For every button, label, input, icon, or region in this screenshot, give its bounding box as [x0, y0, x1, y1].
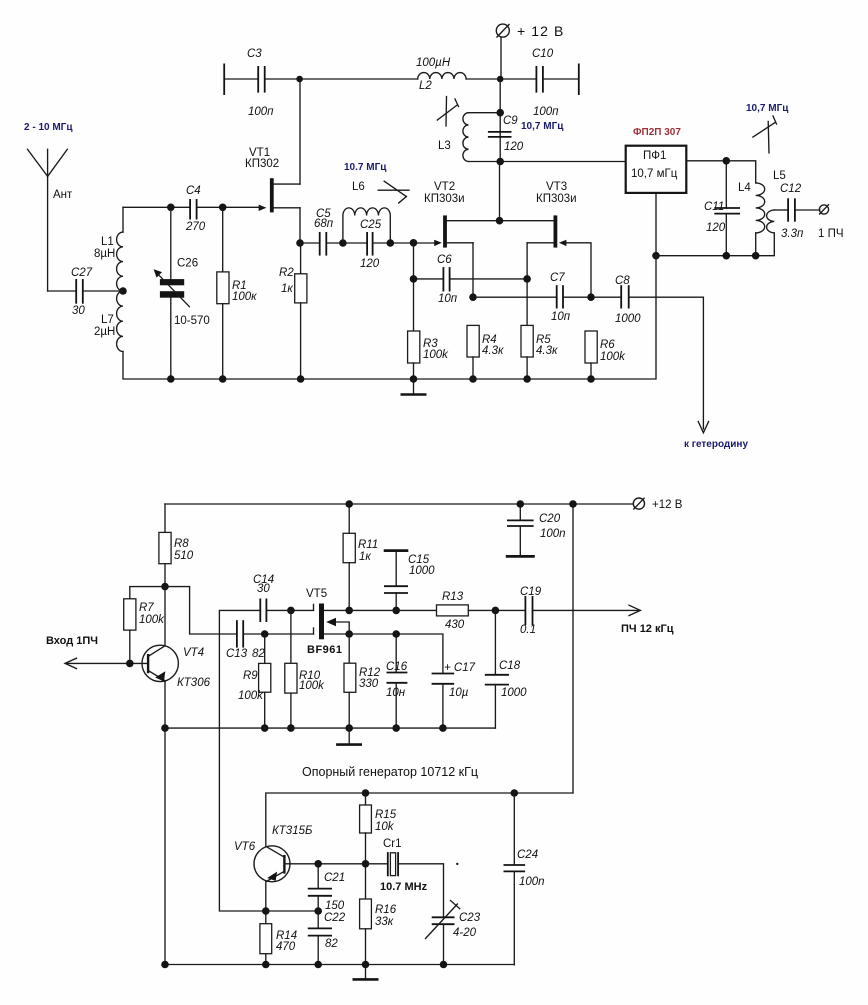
svg-text:+ 12 В: + 12 В: [517, 23, 564, 39]
svg-text:C20: C20: [539, 513, 561, 525]
inductor L3: [438, 113, 469, 162]
svg-text:150: 150: [325, 900, 345, 912]
svg-text:120: 120: [360, 258, 380, 270]
svg-text:C13: C13: [226, 648, 248, 660]
inductor L2: [416, 57, 466, 92]
capacitor C25: [360, 219, 382, 270]
svg-text:10,7 МГц: 10,7 МГц: [521, 121, 564, 132]
svg-text:C3: C3: [247, 48, 262, 60]
node VT1 drain junction: [296, 76, 303, 83]
capacitor C18: [485, 610, 527, 728]
resistor R8: [159, 504, 194, 587]
svg-text:R9: R9: [243, 670, 258, 682]
resistor R3: [408, 331, 450, 379]
node R1 top: [219, 204, 227, 212]
wire oscillator top rail: [266, 793, 573, 847]
node VT6 emitter row: [262, 907, 270, 915]
svg-text:10.7 МГц: 10.7 МГц: [344, 162, 387, 173]
resistor R2: [279, 243, 307, 379]
trimmer arrow for L6: [378, 181, 409, 203]
capacitor C16: [386, 634, 408, 728]
svg-text:C18: C18: [499, 660, 521, 672]
svg-text:3.3п: 3.3п: [781, 228, 804, 240]
node C23 bottom: [440, 961, 448, 969]
wire L3 top lead: [469, 112, 501, 114]
svg-text:C11: C11: [704, 201, 724, 213]
capacitor C3: [224, 48, 274, 118]
svg-text:270: 270: [185, 221, 206, 233]
node R15 top: [362, 789, 370, 797]
svg-text:10.7 MHz: 10.7 MHz: [380, 881, 428, 893]
svg-text:C9: C9: [503, 115, 518, 127]
wire tank top line: [123, 206, 190, 208]
node R7/R8/VT4 collector: [161, 583, 169, 591]
wire C19 to output arrow: [533, 609, 639, 611]
ground (oscillator): [353, 965, 379, 980]
svg-text:430: 430: [445, 619, 465, 631]
wire C27 to tap: [83, 290, 123, 292]
filter PF1: [626, 146, 687, 193]
svg-text:C6: C6: [437, 254, 452, 266]
node C17 bottom rail: [439, 724, 447, 732]
svg-text:68п: 68п: [314, 218, 334, 230]
wire C10 to right bar: [543, 78, 579, 80]
capacitor C4: [185, 185, 206, 233]
wire output network bottom rail: [656, 233, 774, 256]
svg-text:VT6: VT6: [234, 841, 256, 853]
wire top rail middle segment: [265, 78, 418, 80]
node C24 top: [511, 789, 519, 797]
svg-text:ПФ1: ПФ1: [643, 150, 666, 162]
wire top rail right segment: [466, 78, 536, 80]
resistor R16: [360, 864, 397, 965]
node C11 top: [723, 157, 731, 165]
wire VT3 gate from right: [566, 243, 591, 297]
resistor R15: [360, 793, 397, 864]
node L4 bottom: [752, 252, 760, 260]
svg-text:КТ306: КТ306: [177, 677, 211, 689]
svg-text:4.3к: 4.3к: [536, 345, 558, 357]
svg-text:1000: 1000: [501, 687, 527, 699]
resistor R6: [585, 331, 626, 379]
svg-text:100п: 100п: [248, 106, 274, 118]
arrow PCh 12 kHz: [629, 605, 640, 615]
arrow to heterodyne: [698, 422, 708, 433]
svg-text:10k: 10k: [375, 821, 395, 833]
node rail left / VT4 emitter: [161, 724, 169, 732]
capacitor C21: [308, 864, 345, 912]
svg-text:+ C17: + C17: [444, 662, 476, 674]
wire emitter row to C21/C22: [266, 910, 318, 912]
wire +12V terminal to top rail: [500, 38, 502, 80]
svg-text:C22: C22: [324, 912, 346, 924]
wire bottom-section +12V rail: [165, 503, 633, 505]
svg-text:100k: 100k: [299, 680, 325, 692]
wire C6 row: [413, 243, 415, 331]
wire VT3 source node down to R5: [526, 279, 528, 326]
svg-text:4.3к: 4.3к: [482, 345, 504, 357]
svg-text:100k: 100k: [600, 351, 626, 363]
resistor R13: [437, 591, 469, 631]
wire antenna to C27: [48, 290, 76, 292]
wire middle bottom rail: [165, 727, 495, 729]
transistor VT4 (KT306): [142, 645, 211, 689]
node R1 bottom rail: [219, 375, 227, 383]
node R9 bottom rail: [261, 724, 269, 732]
capacitor C19: [520, 586, 542, 636]
wire C12 to 1PCh terminal: [795, 209, 820, 211]
wire drain node to PF1 input: [500, 161, 626, 163]
svg-text:30: 30: [72, 305, 85, 317]
node C6 right / VT3 source: [523, 275, 531, 283]
svg-text:КТ315Б: КТ315Б: [272, 825, 313, 837]
wire input with arrow: [65, 658, 148, 668]
wire L7 bottom to ground rail: [123, 352, 414, 380]
svg-text:R2: R2: [279, 267, 294, 279]
svg-text:10п: 10п: [551, 311, 571, 323]
svg-text:Вход 1ПЧ: Вход 1ПЧ: [46, 635, 98, 647]
svg-text:VT4: VT4: [183, 647, 204, 659]
svg-text:82: 82: [252, 648, 265, 660]
wire oscillator bottom rail: [165, 964, 514, 966]
inductor L6: [343, 181, 390, 243]
svg-text:Ант: Ант: [53, 189, 73, 201]
wire C14 branch / oscillator feed: [266, 609, 313, 611]
svg-text:R6: R6: [600, 339, 615, 351]
wire drain junction up to L3/C9 bottom: [499, 162, 501, 221]
node VT5 source / R12 top: [345, 630, 353, 638]
wire VT4 emitter down: [164, 681, 166, 728]
ground (RF section): [401, 379, 427, 395]
antenna: [28, 149, 74, 291]
wire left vertical to oscillator rail: [164, 728, 166, 964]
svg-text:100k: 100k: [238, 690, 264, 702]
wire C4 to R1 node: [197, 206, 262, 208]
wire VT6 emitter down: [265, 881, 267, 923]
svg-text:100к: 100к: [232, 291, 257, 303]
ground (IF section): [336, 728, 362, 745]
svg-text:L6: L6: [352, 181, 365, 193]
svg-text:C4: C4: [186, 185, 201, 197]
wire C13 to VT5 G1: [243, 633, 313, 635]
svg-text:C23: C23: [459, 912, 481, 924]
svg-text:к гетеродину: к гетеродину: [684, 439, 748, 450]
node L3/C9 top junction: [496, 109, 504, 117]
svg-text:0.1: 0.1: [520, 624, 536, 636]
node L3/C9 bottom junction: [496, 158, 504, 166]
wire bottom rail to PF1 riser: [414, 193, 657, 379]
svg-text:C25: C25: [360, 219, 382, 231]
node C21 top: [314, 860, 322, 868]
svg-text:1к: 1к: [359, 551, 371, 563]
node R9 top: [261, 630, 269, 638]
wire R13 to C19: [468, 609, 525, 611]
svg-text:R11: R11: [358, 539, 378, 551]
capacitor C12: [780, 183, 804, 240]
node +12V terminal (bottom): [633, 498, 682, 511]
svg-text:C27: C27: [71, 267, 93, 279]
node C6 left: [410, 275, 418, 283]
trimmer arrow for L4/L5: [753, 116, 777, 153]
node R12 bottom / ground: [345, 724, 353, 732]
node L1/L7 tap: [119, 287, 127, 295]
node crystal / R15 / R16: [362, 860, 370, 868]
node C16 top: [392, 630, 400, 638]
svg-text:1000: 1000: [409, 565, 435, 577]
node C22 bottom: [314, 961, 322, 969]
svg-text:1 ПЧ: 1 ПЧ: [818, 228, 844, 240]
svg-text:КП303и: КП303и: [424, 193, 465, 205]
resistor R11: [343, 504, 378, 610]
svg-text:8µН: 8µН: [94, 248, 115, 260]
svg-text:2 - 10 МГц: 2 - 10 МГц: [24, 122, 73, 133]
node R16 bottom / ground: [362, 961, 370, 969]
svg-text:100k: 100k: [139, 614, 165, 626]
wire top rail left segment: [224, 78, 258, 80]
svg-text:10н: 10н: [386, 687, 406, 699]
svg-text:100k: 100k: [423, 349, 449, 361]
wire VT1 drain up to rail: [299, 79, 301, 184]
capacitor C11: [704, 161, 740, 256]
capacitor C15: [384, 551, 435, 611]
wire VT2 source down to R4 node: [472, 243, 474, 297]
svg-text:C8: C8: [615, 275, 630, 287]
wire C25 to gate node: [373, 242, 434, 244]
wire VT5 source row to C17: [349, 634, 443, 673]
wire C13 branch from collector node: [165, 587, 237, 634]
svg-text:VT5: VT5: [306, 588, 327, 600]
node top rail / +12V junction: [497, 76, 504, 83]
resistor R10: [285, 610, 325, 728]
svg-text:КП302: КП302: [245, 158, 279, 170]
svg-text:1к: 1к: [281, 283, 293, 295]
wire C5 to L6 node: [326, 242, 367, 244]
node C26 bottom rail: [167, 375, 175, 383]
resistor R14: [260, 924, 297, 965]
resistor R7: [124, 587, 165, 664]
svg-text:VT2: VT2: [434, 181, 455, 193]
wire crystal to C23: [398, 864, 443, 917]
resistor R4: [467, 325, 504, 379]
svg-text:1000: 1000: [615, 313, 641, 325]
resistor R12: [344, 634, 381, 728]
resistor R9: [238, 634, 271, 728]
svg-text:ПЧ 12 кГц: ПЧ 12 кГц: [621, 623, 674, 635]
wire VT4 collector up: [164, 587, 166, 646]
transistor VT3 (JFET, mirrored): [500, 215, 567, 247]
svg-text:R15: R15: [375, 809, 397, 821]
svg-text:100n: 100n: [519, 876, 545, 888]
svg-text:82: 82: [325, 938, 338, 950]
node VT2 source / R4 / C7 row: [469, 293, 477, 301]
svg-text:L3: L3: [438, 140, 451, 152]
svg-text:L7: L7: [101, 314, 114, 326]
inductor L1: [94, 232, 123, 291]
node PF1 bottom junction: [652, 252, 660, 260]
wire VT3 source down to C6 right: [526, 243, 528, 279]
svg-text:Cr1: Cr1: [383, 838, 402, 850]
capacitor C9: [488, 115, 524, 153]
node C15 bottom: [392, 607, 400, 615]
svg-text:L2: L2: [419, 80, 432, 92]
crystal Cr1: [366, 838, 428, 893]
svg-text:C21: C21: [324, 872, 345, 884]
wire C14 left to oscillator line: [219, 610, 265, 911]
svg-text:10,7 МГц: 10,7 МГц: [746, 103, 789, 114]
resistor R1: [217, 207, 257, 379]
svg-text:510: 510: [174, 550, 194, 562]
wire C8 to heterodyne arrow: [629, 297, 704, 429]
svg-text:10,7 мГц: 10,7 мГц: [631, 168, 678, 180]
wire VT1 source down: [299, 208, 301, 243]
node C20 top rail: [517, 500, 525, 508]
node R3 bottom / ground: [410, 375, 418, 383]
node L6/C25 right: [387, 239, 395, 247]
svg-text:120: 120: [504, 141, 524, 153]
node +12V terminal (top): [496, 23, 564, 39]
svg-text:R16: R16: [375, 904, 397, 916]
node L6/C25 left: [339, 239, 347, 247]
transistor VT2 (JFET): [434, 215, 499, 247]
inductor L7: [94, 291, 123, 351]
capacitor C10: [532, 48, 579, 118]
svg-text:R7: R7: [139, 602, 154, 614]
svg-text:2µН: 2µН: [94, 326, 115, 338]
node C26 top: [167, 204, 175, 212]
svg-text:4-20: 4-20: [453, 927, 477, 939]
node C21/C22 junction: [314, 907, 322, 915]
svg-text:10-570: 10-570: [174, 315, 210, 327]
svg-text:C19: C19: [520, 586, 542, 598]
node VT1 source / R2 / C5: [296, 239, 304, 247]
wire source row to C5: [300, 242, 320, 244]
wire VT6 base to crystal node: [284, 863, 365, 865]
node R10 bottom rail: [287, 724, 295, 732]
resistor R5: [521, 325, 558, 379]
node C16 bottom rail: [392, 724, 400, 732]
svg-text:C10: C10: [532, 48, 554, 60]
node R10 top: [287, 607, 295, 615]
svg-text:C7: C7: [550, 272, 565, 284]
svg-text:R8: R8: [174, 538, 189, 550]
svg-text:ФП2П 307: ФП2П 307: [633, 127, 681, 138]
svg-text:L1: L1: [101, 236, 114, 248]
capacitor C5: [314, 208, 334, 256]
transistor VT5 (BF961 dual-gate MOSFET): [314, 604, 350, 640]
svg-text:10п: 10п: [438, 293, 458, 305]
svg-text:120: 120: [706, 222, 726, 234]
node R6 bottom: [587, 375, 595, 383]
svg-text:R13: R13: [442, 591, 464, 603]
wire C7 to C8: [563, 296, 621, 298]
capacitor C22: [308, 911, 346, 965]
capacitor C24: [504, 793, 545, 965]
node rail osc left: [161, 961, 169, 969]
svg-text:30: 30: [257, 583, 270, 595]
transistor VT1 (JFET): [259, 178, 300, 212]
capacitor C14: [253, 574, 274, 622]
node R5 bottom: [523, 375, 531, 383]
svg-text:100µH: 100µH: [416, 57, 451, 69]
node VT2/VT3 drain junction: [496, 217, 504, 225]
wire L1 top lead: [122, 207, 124, 232]
svg-text:L5: L5: [773, 170, 786, 182]
capacitor C8: [615, 275, 641, 325]
svg-text:C26: C26: [177, 258, 198, 270]
svg-text:Опорный генератор 10712 кГц: Опорный генератор 10712 кГц: [302, 765, 478, 779]
capacitor C7: [550, 272, 571, 323]
svg-text:C12: C12: [780, 183, 802, 195]
node C11 bottom: [723, 252, 731, 260]
node VT2 gate / R3: [410, 239, 418, 247]
capacitor C17 (electrolytic): [432, 662, 476, 728]
capacitor C6: [414, 254, 528, 305]
svg-text:BF961: BF961: [307, 644, 343, 656]
svg-text:33к: 33к: [375, 916, 394, 928]
svg-text:100n: 100n: [540, 528, 566, 540]
node 1PCh terminal: [818, 204, 844, 240]
wire +12V rail down to L3/C9 top: [499, 79, 501, 162]
inductor L4: [738, 182, 765, 256]
variable capacitor C23: [426, 901, 481, 965]
node R4 bottom: [469, 375, 477, 383]
svg-text:470: 470: [276, 941, 296, 953]
wire C7 row left: [473, 296, 557, 298]
svg-text:10µ: 10µ: [449, 687, 469, 699]
svg-text:VT3: VT3: [546, 181, 567, 193]
node R11 top rail: [345, 500, 353, 508]
node C7/C8/R6/VT3 gate: [587, 293, 595, 301]
svg-text:100п: 100п: [533, 106, 559, 118]
wire L3 bottom lead: [469, 161, 501, 163]
wire drain row to R13: [349, 609, 436, 611]
svg-text:C24: C24: [517, 849, 538, 861]
transistor VT6 (KT315B): [254, 846, 290, 882]
svg-text:+12 B: +12 B: [652, 499, 683, 511]
capacitor C27: [71, 267, 93, 317]
svg-text:L4: L4: [738, 182, 751, 194]
svg-text:C16: C16: [386, 661, 408, 673]
capacitor C20: [506, 504, 566, 556]
node VT5 drain / R11 bottom: [345, 607, 353, 615]
node stray dot: [456, 863, 458, 865]
wire +12V riser down to oscillator: [572, 504, 574, 793]
node R2 bottom rail: [297, 375, 305, 383]
trimmer arrow for L3: [437, 97, 458, 127]
variable capacitor C26: [154, 207, 210, 379]
node R7 bottom / VT4 base: [126, 660, 134, 668]
node R14 bottom: [262, 961, 270, 969]
inductor L5: [767, 170, 786, 233]
svg-text:КП303и: КП303и: [536, 193, 577, 205]
wire PF1 output: [686, 161, 755, 183]
node oscillator riser top: [569, 500, 577, 508]
node C18 top: [492, 607, 500, 615]
svg-text:330: 330: [359, 678, 379, 690]
wire L5 top to C12: [774, 209, 788, 211]
capacitor C13: [226, 620, 265, 660]
